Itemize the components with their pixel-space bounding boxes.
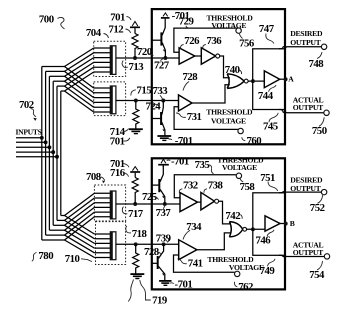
svg-text:726: 726 — [184, 35, 200, 47]
wire: amplifier 744 output to node A — [280, 78, 286, 80]
pulldown resistor on 718 — [133, 244, 139, 273]
svg-text:748: 748 — [309, 58, 325, 70]
svg-text:A: A — [288, 75, 294, 84]
summing bar in box 708 — [110, 191, 116, 219]
svg-text:727: 727 — [154, 60, 170, 72]
amplifier 744 — [264, 71, 279, 88]
svg-text:INPUTS: INPUTS — [16, 127, 42, 136]
svg-text:701: 701 — [110, 136, 125, 148]
resistor 714 — [133, 101, 139, 129]
wire 749: actual output hook through box edge to terminal 754 — [279, 255, 324, 256]
power symbol 701 above transistor 737 — [158, 159, 169, 167]
label THRESHOLD VOLTAGE (bottom box, lower) — [207, 255, 264, 272]
label 745 with leader — [263, 113, 278, 133]
label 742 with leader — [225, 210, 242, 222]
label -701 (power of 737) — [167, 155, 189, 167]
ground 701 below transistor 733 — [157, 136, 171, 140]
label 731 with leader — [176, 111, 201, 123]
svg-text:717: 717 — [128, 208, 144, 220]
wire: top fan diagonals falling into box 706 — [65, 67, 94, 113]
label 760 with leader — [242, 135, 262, 147]
label -701 (ground of 739) with leader — [170, 278, 192, 290]
block 760: top comparator box outline — [152, 9, 285, 144]
svg-text:736: 736 — [207, 35, 223, 47]
svg-text:742: 742 — [225, 210, 240, 222]
label 720 with leader — [137, 46, 154, 58]
label 726 with leader — [181, 35, 201, 48]
svg-text:OUTPUT: OUTPUT — [293, 248, 324, 257]
svg-text:701: 701 — [110, 11, 125, 23]
wire 715 (bar 706 output into box 760) — [116, 100, 179, 102]
wire 731: threshold voltage into comparator 728 — [174, 107, 238, 130]
label DESIRED OUTPUT (top) — [290, 29, 323, 47]
terminal for threshold voltage (bottom of box 760) — [238, 128, 244, 133]
wire 751: desired output frame around amplifier 746 — [253, 193, 285, 256]
label 758 with leader — [240, 178, 256, 193]
node 728 on 718 at pulldown resistor — [134, 242, 138, 246]
wire: threshold voltage 729 into comparator 726 — [174, 28, 236, 52]
label 749 with leader — [260, 259, 276, 277]
wire 747: desired output frame around amplifier 744 — [253, 49, 285, 110]
svg-text:713: 713 — [129, 61, 145, 73]
svg-text:VOLTAGE: VOLTAGE — [222, 163, 257, 172]
label 735 with leader — [195, 159, 214, 174]
resistor 712 — [132, 34, 138, 59]
label 708 with arrow leader — [86, 171, 105, 183]
label 750 with leader — [312, 117, 327, 137]
label 729 with leader — [179, 15, 195, 28]
label 732 with leader — [179, 179, 198, 193]
label THRESHOLD VOLTAGE (top box, upper) — [206, 13, 253, 30]
svg-text:750: 750 — [312, 125, 327, 137]
svg-text:745: 745 — [263, 120, 278, 132]
label 748 with leader — [309, 52, 325, 70]
label DESIRED OUTPUT (bottom) — [290, 176, 323, 194]
svg-text:B: B — [290, 219, 295, 228]
wire: desired output hook through box edge to terminal 748 — [279, 47, 321, 49]
svg-text:-701: -701 — [175, 135, 193, 147]
svg-text:752: 752 — [310, 202, 325, 214]
dotted box 710 (input summing network) — [96, 222, 126, 265]
power symbol 701 above resistor 716 — [130, 167, 140, 178]
wire: threshold voltage 735 into comparator 732 — [174, 175, 236, 198]
comparator 726 — [179, 48, 195, 64]
svg-text:756: 756 — [239, 38, 255, 50]
dotted box 704 (input summing network) — [94, 41, 126, 76]
node: NOR 740 output tap to desired output 747 — [251, 79, 255, 83]
label 701 (power above 712) with leader — [110, 11, 131, 23]
label 746 with leader — [256, 230, 275, 247]
node: NOR 742 output tap to desired output 751 — [251, 227, 255, 231]
label 702 with arrow leader — [19, 99, 37, 121]
node on 717 at resistor 716 — [133, 202, 137, 206]
svg-text:758: 758 — [240, 181, 256, 193]
wire 741: threshold voltage into comparator 734 — [174, 255, 235, 272]
label THRESHOLD VOLTAGE (bottom box, upper) — [217, 155, 264, 172]
label 740 with leader — [225, 64, 242, 76]
svg-text:720: 720 — [137, 46, 152, 58]
wire: 734 output to NOR 742 bottom input — [197, 233, 231, 250]
terminal 748 (desired output, top) — [321, 44, 326, 49]
label 737 with leader — [156, 205, 172, 220]
ground below pulldown resistor (leads to 719) — [130, 274, 144, 278]
wire: top fan horizontals (bus to boxes 704/706) — [42, 67, 65, 92]
wire: inverter 736 output to NOR 740 top input — [220, 56, 230, 78]
svg-text:OUTPUT: OUTPUT — [293, 103, 324, 112]
terminal for threshold voltage (bottom of box 762) — [234, 271, 240, 276]
wire: NOR 740 output to amplifier 744 input — [248, 80, 264, 82]
label 725 with leader — [142, 191, 159, 203]
node 724 on 715 at transistor 733 — [161, 99, 165, 103]
label 734 with leader — [183, 221, 202, 240]
wire: 728 output to NOR 740 bottom input — [192, 85, 230, 103]
label 744 with leader — [258, 85, 276, 102]
wire: stub inputs of bar in box 704 — [94, 48, 111, 72]
svg-text:749: 749 — [260, 265, 276, 277]
wire: inverter 738 output to NOR 742 top input — [219, 201, 231, 224]
node B — [284, 222, 288, 226]
label 716 with leader — [110, 167, 129, 179]
label 718 with leader — [126, 226, 148, 240]
wire: 732 output to inverter 738 — [198, 201, 201, 203]
summing bar in box 706 — [110, 86, 116, 114]
label 738 with leader — [204, 179, 224, 193]
wire: desired output hook through box edge to terminal 752 — [279, 192, 321, 193]
block 762: bottom comparator box outline — [152, 158, 285, 289]
svg-text:718: 718 — [132, 228, 148, 240]
label 756 with leader — [239, 34, 255, 50]
comparator 734 — [179, 240, 197, 260]
wire: top fan diagonals rising into box 704 — [65, 48, 94, 91]
label 727 with leader — [154, 59, 170, 72]
label 752 with leader — [310, 195, 325, 214]
NOR gate 740 — [227, 74, 248, 89]
svg-text:708: 708 — [86, 171, 102, 183]
inverter 738 — [201, 192, 219, 210]
label 762 with leader — [234, 281, 253, 293]
svg-text:-701: -701 — [175, 278, 193, 290]
terminal 752 (desired output, bottom) — [321, 189, 326, 194]
label 747 with leader — [259, 23, 275, 43]
terminal 756 (threshold voltage, top) — [236, 28, 242, 33]
ground 701 below transistor 739 — [159, 281, 171, 285]
svg-text:715: 715 — [137, 84, 152, 96]
wire 745: actual output hook through box edge to terminal 750 — [279, 110, 324, 113]
svg-text:710: 710 — [65, 253, 80, 265]
svg-text:DESIRED: DESIRED — [290, 29, 323, 38]
label 728 (comparator) with leader — [183, 71, 199, 91]
wire: five input lines (INPUTS) — [16, 138, 57, 157]
wire: stub inputs of bar in box 706 — [94, 88, 111, 112]
label 719 with leader and curls — [128, 280, 168, 307]
svg-text:762: 762 — [238, 281, 253, 293]
dotted box 706 (input summing network) — [94, 82, 126, 116]
label 728 (node on 718) with leader — [144, 246, 161, 258]
node on 715 at resistor 714 — [134, 99, 138, 103]
label 754 with leader — [309, 261, 325, 281]
svg-text:739: 739 — [156, 232, 172, 244]
svg-text:VOLTAGE: VOLTAGE — [211, 21, 246, 30]
wire: stub inputs of bar in box 710 — [94, 234, 110, 258]
node on 718 at transistor 739 — [162, 242, 166, 246]
power symbol 701 above transistor 727 — [161, 13, 170, 22]
svg-text:732: 732 — [183, 179, 198, 191]
wire: bottom fan horizontals (bus to boxes 708/710) — [42, 216, 65, 241]
svg-text:731: 731 — [187, 111, 202, 123]
svg-text:704: 704 — [86, 27, 102, 39]
node 720 on 713 at transistor 727 — [163, 56, 167, 60]
terminal 754 (actual output, bottom) — [324, 254, 329, 259]
label 780 with leader — [32, 250, 53, 262]
label ACTUAL OUTPUT (bottom) — [293, 241, 324, 258]
wire 717 (bar 708 output into box 762) — [116, 203, 180, 205]
svg-text:-701: -701 — [171, 155, 189, 167]
svg-text:738: 738 — [208, 179, 224, 191]
wire: stub inputs of bar in box 708 — [94, 193, 110, 217]
svg-text:747: 747 — [259, 23, 275, 35]
svg-text:728: 728 — [183, 71, 199, 83]
node on 713 at resistor 712 — [133, 56, 137, 60]
wire: 726 output to inverter 736 — [195, 55, 202, 57]
summing bar in box 704 — [110, 46, 116, 75]
svg-text:760: 760 — [247, 135, 262, 147]
transistor 727 (emitter to node 720) — [152, 21, 166, 58]
label -701 (ground of 733) — [169, 135, 193, 147]
inverter 736 — [201, 48, 219, 64]
wire 718 (bar 710 output into box 762) — [116, 243, 179, 245]
label 724 with leader — [146, 100, 162, 112]
wire: NOR 742 output to amplifier 746 input — [247, 228, 266, 230]
NOR gate 742 — [229, 222, 246, 237]
svg-text:724: 724 — [146, 100, 162, 112]
svg-text:744: 744 — [258, 90, 274, 102]
label 701 (ground of 714) with leader — [110, 136, 130, 148]
wire 713 (bar 704 output into box 760) — [116, 57, 179, 59]
label THRESHOLD VOLTAGE (top box, lower) — [206, 107, 253, 125]
svg-text:735: 735 — [195, 159, 210, 171]
dotted box 708 (input summing network) — [94, 185, 125, 221]
svg-text:719: 719 — [152, 294, 168, 306]
resistor 716 — [132, 178, 138, 205]
svg-text:THRESHOLD: THRESHOLD — [206, 107, 253, 116]
node A — [284, 77, 288, 81]
svg-text:700: 700 — [39, 13, 54, 25]
label 714 with leader — [110, 126, 129, 138]
wire: bottom fan diagonals falling into box 710 — [65, 216, 95, 258]
label 739 with leader — [156, 232, 172, 244]
label 704 with leader — [86, 27, 109, 39]
transistor 733 (collector to node 724, emitter to ground) — [152, 101, 165, 136]
transistor 737 (emitter to node 725) — [152, 166, 165, 204]
ground 701 below resistor 714 — [129, 129, 143, 133]
terminal 758 (threshold voltage) — [236, 173, 242, 178]
label 717 with leader — [122, 207, 143, 221]
wire: bottom fan diagonals rising into box 708 — [65, 193, 95, 240]
label 736 with leader — [203, 35, 223, 48]
svg-text:746: 746 — [256, 235, 272, 247]
label 701 (power above 716) with leader — [110, 158, 129, 170]
svg-text:-701: -701 — [172, 10, 190, 22]
comparator 732 — [180, 193, 198, 212]
amplifier 746 — [265, 216, 280, 231]
svg-text:740: 740 — [225, 64, 240, 76]
label 741 with leader — [178, 258, 203, 270]
svg-text:OUTPUT: OUTPUT — [290, 38, 321, 47]
label 733 with leader — [153, 85, 169, 100]
svg-text:754: 754 — [309, 269, 325, 281]
svg-text:712: 712 — [109, 23, 124, 35]
node: input bus junction dots (inputs 702 to bus wires) — [40, 136, 59, 159]
label 712 with leader — [109, 23, 131, 35]
wire: amplifier 746 output to node B — [280, 223, 286, 225]
label 715 with leader — [131, 84, 151, 96]
label 713 with leader — [122, 61, 144, 74]
label 751 with leader — [260, 172, 278, 191]
label 700 with leader — [39, 13, 65, 29]
summing bar in box 710 — [110, 232, 116, 260]
terminal 750 (actual output, top) — [324, 110, 329, 115]
label 710 with leader — [65, 253, 92, 265]
node 725 on 717 at transistor 737 — [163, 202, 167, 206]
svg-text:780: 780 — [38, 250, 53, 262]
svg-text:VOLTAGE: VOLTAGE — [211, 116, 246, 125]
power symbol 701 above resistor 712 — [130, 22, 140, 34]
comparator 728 — [179, 95, 193, 111]
svg-text:OUTPUT: OUTPUT — [290, 184, 321, 193]
svg-text:741: 741 — [188, 258, 203, 270]
transistor 739 (collector to node on 718, emitter to ground) — [152, 244, 165, 280]
label ACTUAL OUTPUT (top) — [293, 95, 324, 112]
wire: vertical bus lines — [42, 67, 61, 241]
